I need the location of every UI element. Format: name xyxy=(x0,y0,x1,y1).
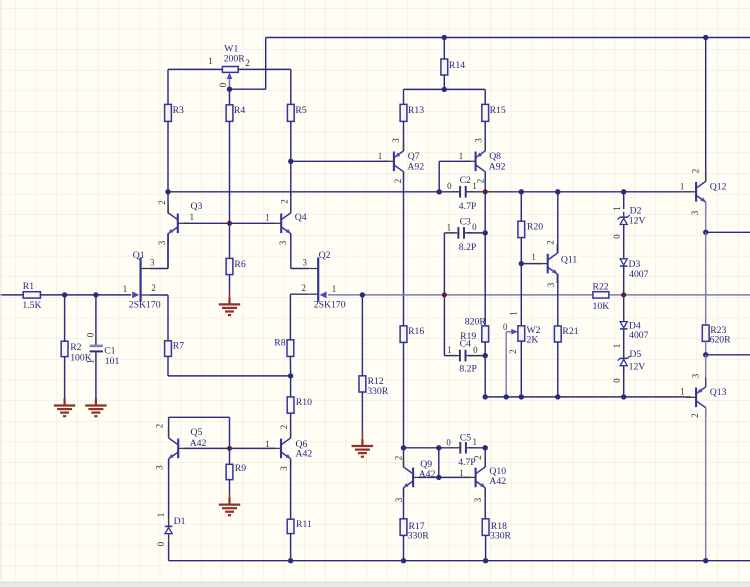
svg-text:R10: R10 xyxy=(296,397,312,408)
transistor Q4 xyxy=(270,204,291,243)
svg-text:2: 2 xyxy=(476,179,486,183)
wire Q5 emitter down xyxy=(168,459,170,520)
svg-text:0: 0 xyxy=(218,82,228,87)
wire R3 bottom xyxy=(167,121,169,191)
svg-text:1: 1 xyxy=(86,359,96,363)
svg-text:0: 0 xyxy=(446,437,451,447)
wire W2 wiper drop xyxy=(505,332,507,397)
wire riser xyxy=(265,38,267,90)
svg-text:4.7P: 4.7P xyxy=(459,201,477,212)
junction C3 right xyxy=(483,230,488,235)
svg-text:2: 2 xyxy=(279,425,289,429)
resistor R17 xyxy=(400,519,407,536)
wire R13-R15 header xyxy=(404,88,486,90)
wire out row2 xyxy=(706,354,750,356)
wire W2 from Q11 base xyxy=(520,264,522,326)
svg-text:R21: R21 xyxy=(562,326,578,337)
ground under R12 xyxy=(352,439,374,457)
wire R15 to Q8 emitter xyxy=(484,121,486,151)
wire D4-D5 xyxy=(623,330,625,358)
wire rail segment B xyxy=(466,191,684,193)
junction Q11 collector xyxy=(555,189,560,194)
junction R19 column bottom xyxy=(483,394,488,399)
wire Q1 drain riser xyxy=(167,234,169,269)
junction D5 bottom xyxy=(621,394,626,399)
wire Q7 collector chain xyxy=(403,172,405,326)
svg-text:2SK170: 2SK170 xyxy=(314,300,346,311)
wire R18 bottom xyxy=(485,535,487,560)
wire Q3 emitter top xyxy=(167,192,169,214)
svg-text:2: 2 xyxy=(393,179,403,183)
ground under C1 xyxy=(85,399,107,417)
svg-text:C3: C3 xyxy=(460,217,471,228)
junction Q3-Q4 bases xyxy=(227,221,232,226)
wire out row1 xyxy=(706,231,750,233)
svg-text:200R: 200R xyxy=(224,53,246,64)
wire R14 bottom lead xyxy=(443,75,445,89)
svg-text:1: 1 xyxy=(459,468,463,478)
wire node row xyxy=(485,396,684,398)
wire Q6 emitter down xyxy=(290,459,292,519)
wire Q8 collector xyxy=(484,172,486,192)
svg-text:1: 1 xyxy=(447,222,451,232)
wire Q11 emitter xyxy=(557,274,559,326)
wire gate net A xyxy=(328,294,593,296)
wire R20 top lead xyxy=(520,192,522,221)
svg-text:Q1: Q1 xyxy=(133,250,145,261)
wire W1 pin2 xyxy=(238,68,291,70)
svg-text:2: 2 xyxy=(157,200,167,204)
junction R11 bottom xyxy=(288,558,293,563)
wire rail segment A xyxy=(168,191,460,193)
wire Q4 base xyxy=(230,222,275,224)
resistor R11 xyxy=(287,519,294,533)
ground under R9 xyxy=(219,498,240,516)
wire C3 left xyxy=(444,232,455,234)
wire R9 to ground xyxy=(229,480,231,492)
junction R14 bottom xyxy=(442,87,447,92)
svg-text:A92: A92 xyxy=(407,161,424,172)
svg-text:1: 1 xyxy=(190,212,194,222)
svg-text:2SK170: 2SK170 xyxy=(129,300,161,311)
wire Q9-Q10 base xyxy=(419,476,469,478)
junction R18 bottom rail xyxy=(483,558,488,563)
pin stub Q12 base xyxy=(684,191,691,193)
transistor Q1 2SK170 xyxy=(141,257,150,301)
ground under R6 xyxy=(219,297,240,315)
svg-text:1: 1 xyxy=(680,181,684,191)
wire R2 to ground xyxy=(64,357,66,399)
junction Q5-Q6 base xyxy=(227,446,232,451)
resistor R1 xyxy=(23,292,40,298)
resistor R4 xyxy=(226,105,233,122)
junction R5-Q7 base xyxy=(288,159,293,164)
junction R8 bottom xyxy=(288,373,293,378)
capacitor C1 xyxy=(90,346,103,352)
svg-text:1: 1 xyxy=(208,56,212,66)
wire Q1 source to R7 xyxy=(167,295,169,341)
svg-text:2: 2 xyxy=(473,455,483,459)
svg-text:R2: R2 xyxy=(70,342,81,353)
potentiometer W1 wiper arrow xyxy=(227,72,233,89)
transistor Q7 xyxy=(383,142,404,181)
wire node to D4 xyxy=(623,295,625,322)
svg-text:4007: 4007 xyxy=(629,269,649,280)
resistor R22 xyxy=(593,292,609,298)
wire Q1 source stub xyxy=(150,294,168,296)
svg-text:2K: 2K xyxy=(527,334,539,345)
wire bottom rail xyxy=(169,560,750,562)
svg-text:3: 3 xyxy=(690,210,700,215)
svg-text:3: 3 xyxy=(473,497,483,502)
svg-text:1: 1 xyxy=(612,344,622,348)
transistor Q8 xyxy=(465,142,486,181)
wire R16 bottom xyxy=(403,342,405,447)
svg-text:R14: R14 xyxy=(449,60,465,71)
wire link drop to base xyxy=(229,417,231,448)
svg-text:1: 1 xyxy=(123,284,127,294)
svg-text:12V: 12V xyxy=(629,215,646,226)
svg-text:2: 2 xyxy=(508,349,518,353)
transistor Q9 xyxy=(404,458,425,497)
resistor R9 xyxy=(226,464,233,479)
wire Q4 emitter down xyxy=(290,233,292,268)
junction Q8 collector on rail xyxy=(483,189,488,194)
wire R13 top lead xyxy=(403,89,405,104)
svg-text:330R: 330R xyxy=(408,531,430,542)
svg-text:1: 1 xyxy=(265,213,269,223)
resistor R18 xyxy=(482,519,489,536)
svg-text:3: 3 xyxy=(150,257,155,267)
wire R19 bottom xyxy=(484,342,486,356)
wire R8 bottom xyxy=(289,356,291,376)
junction wiper xyxy=(227,87,232,92)
resistor R19 xyxy=(482,326,489,342)
svg-text:2: 2 xyxy=(690,413,700,417)
junction base riser xyxy=(436,475,441,480)
resistor R21 xyxy=(554,326,561,342)
svg-text:3: 3 xyxy=(302,257,307,267)
diode D3 xyxy=(620,253,628,271)
svg-text:R3: R3 xyxy=(173,105,184,116)
svg-text:R4: R4 xyxy=(234,105,245,116)
svg-text:1: 1 xyxy=(156,513,166,517)
svg-text:R9: R9 xyxy=(235,463,246,474)
resistor R23 xyxy=(702,325,709,341)
wire to R5 top xyxy=(290,69,292,104)
junction input-C1 xyxy=(93,292,98,297)
wire to R3 top xyxy=(167,69,169,104)
junction R20 top xyxy=(519,189,524,194)
transistor Q13 xyxy=(685,378,706,417)
wire Q12 emitter xyxy=(705,202,707,232)
resistor R8 xyxy=(287,340,294,357)
svg-text:4007: 4007 xyxy=(629,330,649,341)
wire R23 to Q13 xyxy=(705,355,707,387)
svg-text:A42: A42 xyxy=(190,438,207,449)
junction D2 column xyxy=(621,189,626,194)
junction Q8 base on rail xyxy=(437,189,442,194)
junction R21 bottom xyxy=(555,394,560,399)
wire input left xyxy=(0,294,23,296)
junction Q12 column top xyxy=(703,35,708,40)
resistor R12 xyxy=(359,376,366,392)
wire D2-D3 xyxy=(623,226,625,259)
svg-text:1: 1 xyxy=(472,181,476,191)
wire D5 to wire3 xyxy=(623,367,625,397)
wire Q10 emitter xyxy=(484,488,486,519)
ground under R2 xyxy=(54,399,76,417)
svg-text:2: 2 xyxy=(245,58,249,68)
power stub R12 ground xyxy=(361,430,363,446)
resistor R15 xyxy=(482,104,489,121)
left edge line xyxy=(0,0,2,582)
wire Q8 base left xyxy=(439,160,469,162)
capacitor C4 xyxy=(452,350,474,362)
wire Q10 collector xyxy=(484,448,486,467)
svg-text:10K: 10K xyxy=(593,301,610,312)
diode D1 xyxy=(165,521,173,539)
junction R23 bottom xyxy=(703,352,708,357)
pin stub D1 top xyxy=(168,520,170,527)
wire Q5 collector top xyxy=(168,417,170,438)
wire Q2 source stub xyxy=(290,293,308,295)
svg-text:R15: R15 xyxy=(490,105,506,116)
junction wiper bottom xyxy=(504,394,509,399)
svg-text:3: 3 xyxy=(279,466,289,471)
wire C5 riser xyxy=(438,448,440,478)
svg-text:R5: R5 xyxy=(295,105,306,116)
svg-text:0: 0 xyxy=(447,181,452,191)
svg-text:2: 2 xyxy=(393,456,403,460)
resistor R14 xyxy=(441,59,448,75)
svg-text:8.2P: 8.2P xyxy=(459,242,477,253)
svg-text:3: 3 xyxy=(394,497,404,502)
junction Q13 bottom rail xyxy=(703,558,708,563)
svg-text:R16: R16 xyxy=(408,326,424,337)
wire Q9 collector xyxy=(403,448,405,467)
svg-text:C4: C4 xyxy=(460,338,471,349)
svg-text:820R: 820R xyxy=(465,316,487,327)
wire wiper to riser xyxy=(230,88,266,90)
transistor Q3 xyxy=(168,204,189,243)
svg-text:Q7: Q7 xyxy=(408,151,420,162)
svg-text:D5: D5 xyxy=(629,349,641,360)
wire C3 riser xyxy=(443,233,445,356)
svg-text:1.5K: 1.5K xyxy=(22,300,41,311)
svg-text:Q13: Q13 xyxy=(710,387,727,398)
svg-text:1: 1 xyxy=(472,437,476,447)
wire Q3 collector down xyxy=(167,233,169,268)
wire R4 bottom xyxy=(229,121,231,223)
resistor R20 xyxy=(518,221,525,237)
wire R23 bottom xyxy=(705,341,707,354)
svg-text:0: 0 xyxy=(472,222,477,232)
transistor Q12 xyxy=(685,172,706,211)
svg-text:0: 0 xyxy=(473,345,478,355)
wire R14 top lead xyxy=(443,38,445,60)
svg-text:1: 1 xyxy=(612,206,622,210)
junction C4 right xyxy=(483,353,488,358)
wire C4 left xyxy=(444,355,457,357)
wire Q3 base xyxy=(184,222,230,224)
wire R12 top xyxy=(361,295,363,376)
svg-text:1: 1 xyxy=(265,439,269,449)
svg-text:3: 3 xyxy=(691,373,701,378)
svg-text:R22: R22 xyxy=(593,281,609,292)
wire W2 bottom xyxy=(520,341,522,397)
svg-text:3: 3 xyxy=(278,240,288,245)
svg-text:3: 3 xyxy=(157,240,167,245)
svg-text:2: 2 xyxy=(280,199,290,203)
junction C3-C4 riser xyxy=(442,292,447,297)
wire Q2 source drop xyxy=(289,294,291,340)
junction input-R2 xyxy=(62,292,67,297)
junction R22-diodes xyxy=(621,292,626,297)
svg-text:620R: 620R xyxy=(710,335,732,346)
wire Q1 drain stub xyxy=(150,268,168,270)
svg-text:2: 2 xyxy=(546,240,556,244)
svg-text:Q5: Q5 xyxy=(191,427,203,438)
wire C1 drop xyxy=(95,295,97,345)
capacitor C5 xyxy=(452,442,474,454)
wire Q5 top link xyxy=(169,416,230,418)
junction R12 top xyxy=(360,292,365,297)
svg-text:R7: R7 xyxy=(173,340,184,351)
wire R9 top xyxy=(229,448,231,464)
wire R6 to ground xyxy=(229,275,231,293)
resistor R2 xyxy=(61,341,68,356)
wire R21 bottom xyxy=(557,342,559,397)
potentiometer W1 body xyxy=(222,67,238,73)
junction R14 top xyxy=(442,35,447,40)
wire R12 to ground xyxy=(361,392,363,430)
pin stub Q13 base xyxy=(684,396,691,398)
svg-text:Q12: Q12 xyxy=(710,182,727,193)
svg-text:3: 3 xyxy=(474,138,484,143)
junction R3-Q3 xyxy=(165,189,170,194)
wire node row left xyxy=(404,447,454,449)
transistor Q6 xyxy=(270,429,291,468)
svg-text:1: 1 xyxy=(509,311,519,315)
junction R17 bottom rail xyxy=(401,558,406,563)
wire gate net B xyxy=(609,294,750,296)
svg-text:330R: 330R xyxy=(367,386,389,397)
svg-text:R6: R6 xyxy=(234,259,245,270)
wire R5 to Q4 collector xyxy=(290,161,292,213)
wire R20 bottom xyxy=(520,238,522,264)
svg-text:Q11: Q11 xyxy=(561,255,577,266)
capacitor C3 xyxy=(450,227,472,239)
svg-text:2: 2 xyxy=(301,283,305,293)
resistor R10 xyxy=(287,397,294,413)
svg-text:1: 1 xyxy=(378,151,382,161)
junction W2 bottom xyxy=(519,394,524,399)
wire R11 bottom xyxy=(290,534,292,561)
svg-text:0: 0 xyxy=(86,332,96,337)
potentiometer W2 body xyxy=(518,326,525,341)
svg-text:2: 2 xyxy=(151,283,155,293)
svg-text:0: 0 xyxy=(612,378,622,383)
junction C5 right xyxy=(483,445,488,450)
wire R6 top xyxy=(229,223,231,258)
wire Q5 base xyxy=(184,447,229,449)
wire Q9 emitter xyxy=(403,488,405,519)
junction C5 riser top xyxy=(436,445,441,450)
svg-text:D1: D1 xyxy=(174,516,186,527)
wire Q12 collector xyxy=(705,38,707,182)
transistor Q10 xyxy=(465,458,486,497)
svg-text:R8: R8 xyxy=(274,337,285,348)
wire top rail xyxy=(266,37,750,39)
svg-text:A42: A42 xyxy=(489,476,506,487)
svg-text:R11: R11 xyxy=(296,519,312,530)
wire to R23 xyxy=(705,232,707,325)
svg-text:101: 101 xyxy=(105,356,120,367)
wire W1 pin1 xyxy=(168,68,222,70)
wire R17 bottom xyxy=(403,535,405,560)
wire Q11 collector xyxy=(557,192,559,253)
svg-text:Q8: Q8 xyxy=(489,151,501,162)
svg-text:2: 2 xyxy=(691,169,701,173)
wire C1 to ground xyxy=(95,351,97,398)
wire R10 to Q6 xyxy=(290,413,292,438)
svg-text:C2: C2 xyxy=(460,175,471,186)
wire R7-R8 link xyxy=(168,375,291,377)
power stub R9 ground xyxy=(229,492,231,504)
resistor R6 xyxy=(226,258,233,274)
svg-text:2: 2 xyxy=(155,424,165,428)
wire C3 right xyxy=(467,232,485,234)
svg-text:3: 3 xyxy=(155,465,165,470)
svg-text:A42: A42 xyxy=(419,469,436,480)
wire R4 top xyxy=(229,89,231,105)
resistor R7 xyxy=(165,341,172,357)
svg-text:0: 0 xyxy=(503,322,508,332)
wire R13 to Q7 emitter xyxy=(403,121,405,151)
resistor R13 xyxy=(400,104,407,121)
svg-text:3: 3 xyxy=(391,138,401,143)
svg-text:Q4: Q4 xyxy=(295,212,307,223)
svg-text:1: 1 xyxy=(531,252,535,262)
svg-text:A42: A42 xyxy=(296,449,313,460)
junction Q9 top xyxy=(401,445,406,450)
bottom scrollbar strip xyxy=(0,582,750,587)
resistor R16 xyxy=(400,326,407,343)
wire D3 to node xyxy=(623,267,625,295)
wire D1 to bottom rail xyxy=(168,542,170,561)
power stub R6 ground xyxy=(229,293,231,304)
svg-text:12V: 12V xyxy=(629,361,646,372)
svg-text:8.2P: 8.2P xyxy=(459,363,477,374)
diode D2 zener xyxy=(618,212,630,230)
wire C4 right xyxy=(468,355,485,357)
pin stub D1 bottom xyxy=(168,535,170,542)
svg-text:330R: 330R xyxy=(490,531,512,542)
transistor Q11 xyxy=(537,244,558,283)
wire Q13 emitter down xyxy=(705,408,707,561)
svg-text:0: 0 xyxy=(156,541,166,546)
capacitor C2 xyxy=(452,186,474,198)
wire R5 bottom xyxy=(290,121,292,161)
junction Q12 emitter xyxy=(703,230,708,235)
wire Q7 base xyxy=(291,160,388,162)
svg-text:R20: R20 xyxy=(527,221,543,232)
svg-text:Q3: Q3 xyxy=(191,201,203,212)
svg-text:A92: A92 xyxy=(489,161,506,172)
svg-text:3: 3 xyxy=(546,282,556,287)
wire R1 to gate xyxy=(40,294,131,296)
